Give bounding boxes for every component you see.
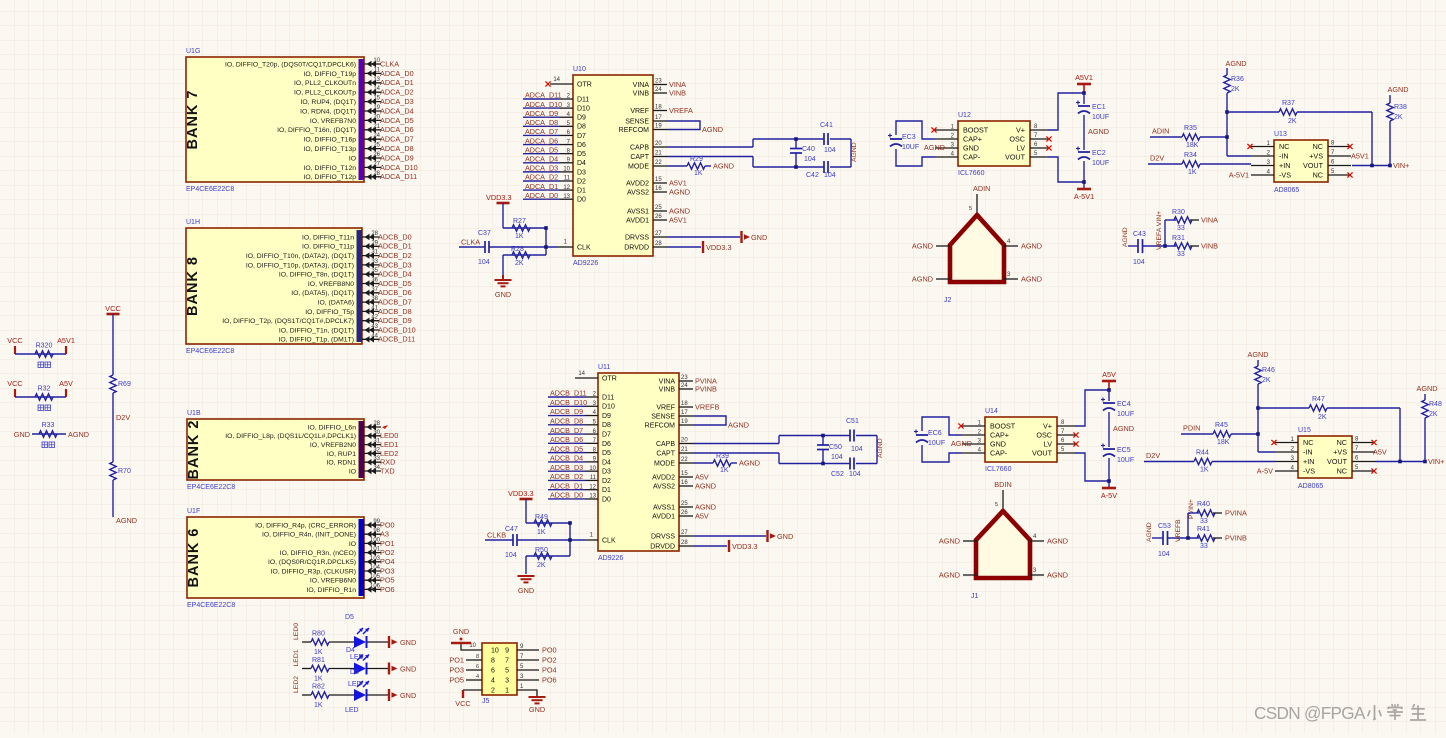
- svg-text:D2V: D2V: [1146, 451, 1160, 460]
- svg-text:R49: R49: [535, 514, 548, 521]
- svg-text:OTR: OTR: [602, 376, 617, 383]
- svg-text:33: 33: [1177, 251, 1185, 258]
- svg-text:IO, PLL2_CLKOUTp: IO, PLL2_CLKOUTp: [294, 90, 356, 97]
- svg-text:AGND: AGND: [1047, 571, 1068, 580]
- svg-text:PO0: PO0: [380, 520, 395, 529]
- svg-text:104: 104: [849, 471, 861, 478]
- svg-text:NC: NC: [1337, 467, 1347, 476]
- svg-text:3: 3: [505, 678, 509, 685]
- svg-text:10UF: 10UF: [1092, 160, 1109, 167]
- svg-text:V+: V+: [1043, 422, 1052, 431]
- svg-text:A5V1: A5V1: [669, 178, 687, 187]
- svg-text:104: 104: [824, 147, 836, 154]
- svg-text:IO, (DATA5), (DQ1T): IO, (DATA5), (DQ1T): [291, 290, 354, 297]
- svg-text:IO, RDN1: IO, RDN1: [327, 460, 357, 467]
- svg-text:ADIN: ADIN: [973, 184, 990, 193]
- svg-text:26: 26: [681, 510, 688, 516]
- svg-text:NC: NC: [1303, 438, 1313, 447]
- svg-text:22: 22: [655, 160, 662, 166]
- svg-text:AVSS1: AVSS1: [653, 504, 675, 511]
- svg-text:EP4CE6E22C8: EP4CE6E22C8: [187, 484, 235, 491]
- svg-text:ADCA_D4: ADCA_D4: [525, 154, 558, 163]
- svg-text:R45: R45: [1215, 422, 1228, 429]
- svg-text:LV: LV: [1017, 144, 1025, 153]
- svg-text:VREF: VREF: [630, 108, 649, 115]
- svg-text:R31: R31: [1172, 235, 1185, 242]
- svg-text:CAPB: CAPB: [630, 144, 649, 151]
- svg-text:D10: D10: [577, 106, 590, 113]
- svg-text:IO, DIFFIO_T10p, (DATA3), (DQ1: IO, DIFFIO_T10p, (DATA3), (DQ1T): [246, 262, 354, 269]
- svg-text:PO2: PO2: [380, 548, 395, 557]
- svg-text:NC: NC: [1313, 142, 1323, 151]
- svg-text:AGND: AGND: [695, 481, 716, 490]
- svg-text:PO5: PO5: [380, 576, 395, 585]
- svg-text:LED0: LED0: [380, 431, 398, 440]
- svg-text:19: 19: [681, 419, 688, 425]
- svg-text:AD8065: AD8065: [1298, 483, 1323, 490]
- svg-text:CAP+: CAP+: [990, 431, 1009, 440]
- svg-text:IO: IO: [349, 155, 356, 162]
- svg-text:ADCB_D11: ADCB_D11: [550, 389, 587, 398]
- svg-text:16: 16: [681, 480, 688, 486]
- svg-text:D11: D11: [602, 394, 614, 401]
- svg-text:ADCA_D1: ADCA_D1: [525, 182, 558, 191]
- svg-text:10UF: 10UF: [1092, 114, 1109, 121]
- svg-text:D11: D11: [577, 96, 589, 103]
- svg-text:R48: R48: [1429, 401, 1442, 408]
- svg-text:PO2: PO2: [542, 656, 557, 665]
- svg-text:ADCA_D11: ADCA_D11: [525, 91, 562, 100]
- svg-text:10UF: 10UF: [928, 440, 945, 447]
- svg-text:22: 22: [681, 457, 688, 463]
- svg-text:VINB: VINB: [633, 90, 650, 97]
- svg-text:11: 11: [590, 475, 597, 481]
- svg-text:IO, VREFB2N0: IO, VREFB2N0: [310, 442, 356, 449]
- svg-text:IO, DIFFIO_R3p, (CLKUSR): IO, DIFFIO_R3p, (CLKUSR): [271, 568, 356, 575]
- svg-text:ADCA_D0: ADCA_D0: [525, 191, 558, 200]
- svg-text:PVIN+: PVIN+: [1188, 499, 1195, 519]
- svg-text:ADCB_D8: ADCB_D8: [550, 417, 583, 426]
- svg-text:IO: IO: [349, 541, 356, 548]
- svg-text:PO4: PO4: [380, 557, 395, 566]
- svg-text:VREFA VIN+: VREFA VIN+: [1156, 211, 1163, 250]
- svg-text:VOUT: VOUT: [1327, 457, 1348, 466]
- svg-text:BANK 7: BANK 7: [185, 90, 201, 150]
- svg-text:PO5: PO5: [449, 676, 464, 685]
- svg-text:2K: 2K: [515, 260, 524, 267]
- svg-text:AVDD2: AVDD2: [652, 474, 675, 481]
- svg-text:6: 6: [491, 668, 495, 675]
- svg-text:AGND: AGND: [924, 143, 945, 152]
- svg-text:IO, DIFFIO_T10n, (DATA2), (DQ1: IO, DIFFIO_T10n, (DATA2), (DQ1T): [246, 253, 354, 260]
- svg-text:R44: R44: [1196, 450, 1209, 457]
- svg-text:EC6: EC6: [928, 430, 942, 437]
- svg-text:C43: C43: [1133, 231, 1146, 238]
- svg-text:104: 104: [851, 446, 863, 453]
- svg-text:V+: V+: [1016, 126, 1025, 135]
- svg-text:R80: R80: [312, 631, 325, 638]
- svg-text:D0: D0: [577, 197, 586, 204]
- svg-text:R37: R37: [1282, 100, 1295, 107]
- svg-text:J2: J2: [944, 297, 952, 304]
- svg-text:IO, DIFFIO_T2p, (DQS1T/CQ1T#,D: IO, DIFFIO_T2p, (DQS1T/CQ1T#,DPCLK7): [222, 318, 354, 325]
- svg-text:VINB: VINB: [659, 386, 676, 393]
- svg-text:A5V1: A5V1: [669, 215, 687, 224]
- svg-text:ADCB_D3: ADCB_D3: [378, 260, 412, 269]
- svg-text:AGND: AGND: [877, 438, 884, 458]
- svg-text:ADCB_D0: ADCB_D0: [550, 491, 583, 500]
- svg-text:MODE: MODE: [628, 163, 649, 170]
- svg-text:AGND: AGND: [1416, 384, 1437, 393]
- svg-text:DRVSS: DRVSS: [651, 533, 675, 540]
- svg-text:CLKA: CLKA: [380, 59, 399, 68]
- svg-text:VCC: VCC: [7, 379, 22, 388]
- svg-text:13: 13: [563, 194, 570, 200]
- svg-text:1K: 1K: [314, 676, 323, 683]
- svg-text:AVDD2: AVDD2: [626, 180, 649, 187]
- svg-text:BANK 2: BANK 2: [186, 420, 202, 480]
- svg-text:D5: D5: [602, 450, 611, 457]
- svg-text:2K: 2K: [1429, 411, 1438, 418]
- svg-text:+IN: +IN: [1279, 161, 1290, 170]
- svg-text:ADCA_D2: ADCA_D2: [525, 173, 558, 182]
- svg-text:24: 24: [681, 383, 688, 389]
- svg-text:104: 104: [1158, 551, 1170, 558]
- svg-text:EP4CE6E22C8: EP4CE6E22C8: [186, 348, 234, 355]
- svg-text:ADCA_D10: ADCA_D10: [525, 100, 562, 109]
- svg-text:1K: 1K: [1188, 169, 1197, 176]
- svg-text:IO, DIFFIO_R1n: IO, DIFFIO_R1n: [307, 587, 357, 594]
- svg-text:VDD3.3: VDD3.3: [706, 243, 732, 252]
- svg-text:U1B: U1B: [187, 410, 201, 417]
- svg-text:A5V1: A5V1: [1351, 151, 1369, 160]
- svg-text:R38: R38: [1394, 104, 1407, 111]
- svg-text:R41: R41: [1197, 526, 1210, 533]
- svg-text:4: 4: [476, 674, 479, 680]
- svg-text:1K: 1K: [314, 649, 323, 656]
- svg-text:RXD: RXD: [380, 458, 395, 467]
- svg-text:+IN: +IN: [1303, 457, 1314, 466]
- svg-text:A5V: A5V: [695, 472, 709, 481]
- svg-text:A3: A3: [380, 530, 389, 539]
- svg-text:R70: R70: [118, 468, 131, 475]
- svg-text:ADCA_D1: ADCA_D1: [380, 78, 414, 87]
- svg-text:104: 104: [505, 552, 517, 559]
- svg-text:EP4CE6E22C8: EP4CE6E22C8: [186, 186, 234, 193]
- svg-text:LED: LED: [350, 654, 364, 661]
- svg-text:VIN+: VIN+: [1428, 457, 1444, 466]
- svg-text:-IN: -IN: [1303, 448, 1313, 457]
- svg-text:AGND: AGND: [1122, 227, 1129, 247]
- svg-text:IO, RUP4, (DQ1T): IO, RUP4, (DQ1T): [300, 99, 356, 106]
- svg-text:ADCB_D3: ADCB_D3: [550, 463, 583, 472]
- svg-text:D7: D7: [577, 133, 586, 140]
- svg-text:IO, DIFFIO_T16p: IO, DIFFIO_T16p: [304, 137, 357, 144]
- svg-text:ADCB_D0: ADCB_D0: [378, 232, 412, 241]
- svg-text:ADCB_D9: ADCB_D9: [550, 407, 583, 416]
- svg-text:C42: C42: [806, 172, 819, 179]
- svg-text:R81: R81: [312, 657, 325, 664]
- svg-text:C52: C52: [831, 471, 844, 478]
- svg-text:ADCA_D9: ADCA_D9: [525, 109, 558, 118]
- svg-text:VINA: VINA: [1201, 216, 1218, 225]
- svg-text:GND: GND: [529, 705, 545, 714]
- svg-text:LED: LED: [345, 707, 359, 714]
- svg-text:A5V1: A5V1: [57, 336, 75, 345]
- svg-text:NC: NC: [1313, 171, 1323, 180]
- svg-text:33: 33: [1177, 225, 1185, 232]
- svg-text:28: 28: [655, 241, 662, 247]
- svg-text:D9: D9: [577, 115, 586, 122]
- svg-text:R320: R320: [36, 343, 53, 350]
- svg-text:104: 104: [1133, 259, 1145, 266]
- svg-text:CLKA: CLKA: [461, 238, 480, 247]
- svg-text:VCC: VCC: [105, 304, 121, 313]
- svg-text:20: 20: [655, 141, 662, 147]
- svg-text:25: 25: [681, 501, 688, 507]
- svg-text:IO, RDN4, (DQ1T): IO, RDN4, (DQ1T): [300, 108, 356, 115]
- svg-text:ICL7660: ICL7660: [985, 466, 1012, 473]
- svg-text:PVINA: PVINA: [1225, 509, 1247, 518]
- svg-text:AVSS2: AVSS2: [627, 189, 649, 196]
- svg-text:D0: D0: [602, 496, 611, 503]
- svg-text:VDD3.3: VDD3.3: [732, 542, 758, 551]
- svg-text:VIN+: VIN+: [1393, 161, 1409, 170]
- svg-text:U12: U12: [958, 112, 971, 119]
- svg-text:VOUT: VOUT: [1032, 449, 1053, 458]
- svg-text:IO, DIFFIO_T5p: IO, DIFFIO_T5p: [305, 309, 354, 316]
- svg-text:1K: 1K: [720, 467, 729, 474]
- svg-text:AGND: AGND: [912, 275, 933, 284]
- svg-text:AGND: AGND: [728, 421, 749, 430]
- svg-text:2K: 2K: [1262, 377, 1271, 384]
- svg-text:D3: D3: [602, 469, 611, 476]
- svg-text:19: 19: [655, 124, 662, 130]
- svg-text:AGND: AGND: [669, 187, 690, 196]
- svg-text:ADCB_D10: ADCB_D10: [550, 398, 587, 407]
- svg-text:AVSS1: AVSS1: [627, 208, 649, 215]
- svg-text:-VS: -VS: [1279, 171, 1291, 180]
- svg-text:A5V1: A5V1: [1075, 73, 1093, 82]
- svg-text:IO, DIFFIO_T16n, (DQ1T): IO, DIFFIO_T16n, (DQ1T): [277, 127, 356, 134]
- svg-text:AGND: AGND: [1047, 537, 1068, 546]
- svg-text:1K: 1K: [1200, 467, 1209, 474]
- svg-text:IO: IO: [349, 468, 356, 475]
- svg-text:ADCB_D6: ADCB_D6: [378, 288, 412, 297]
- svg-text:IO, DIFFIO_L8p, (DQS1L/CQ1L#,D: IO, DIFFIO_L8p, (DQS1L/CQ1L#,DPCLK1): [225, 433, 356, 440]
- svg-text:18: 18: [681, 401, 688, 407]
- svg-text:U13: U13: [1274, 131, 1287, 138]
- svg-text:D8: D8: [602, 422, 611, 429]
- svg-text:1K: 1K: [314, 702, 323, 709]
- svg-text:EC3: EC3: [902, 134, 916, 141]
- svg-text:VINA: VINA: [659, 378, 676, 385]
- svg-text:C37: C37: [478, 230, 491, 237]
- svg-text:IO, DIFFIO_L6n: IO, DIFFIO_L6n: [308, 424, 357, 431]
- svg-text:R47: R47: [1312, 396, 1325, 403]
- svg-text:CAPB: CAPB: [656, 441, 675, 448]
- svg-text:AGND: AGND: [1021, 275, 1042, 284]
- svg-text:9: 9: [505, 648, 509, 655]
- svg-text:10UF: 10UF: [902, 144, 919, 151]
- svg-text:C47: C47: [505, 526, 518, 533]
- svg-text:ICL7660: ICL7660: [958, 170, 985, 177]
- svg-text:AGND: AGND: [1113, 424, 1134, 433]
- svg-text:CAP-: CAP-: [963, 153, 981, 162]
- svg-text:33: 33: [1200, 543, 1208, 550]
- svg-text:U10: U10: [573, 66, 586, 73]
- svg-text:ADCA_D0: ADCA_D0: [380, 69, 414, 78]
- svg-text:SENSE: SENSE: [651, 413, 675, 420]
- svg-text:AGND: AGND: [739, 459, 760, 468]
- svg-text:R46: R46: [1262, 367, 1275, 374]
- svg-text:PO4: PO4: [542, 666, 557, 675]
- svg-text:R40: R40: [1197, 501, 1210, 508]
- svg-text:2K: 2K: [1288, 118, 1297, 125]
- svg-text:GND: GND: [990, 440, 1006, 449]
- svg-text:AGND: AGND: [1225, 59, 1246, 68]
- svg-text:EC4: EC4: [1117, 401, 1131, 408]
- svg-text:GND: GND: [14, 430, 30, 439]
- svg-text:EC1: EC1: [1092, 104, 1106, 111]
- svg-text:AGND: AGND: [939, 537, 960, 546]
- svg-text:J1: J1: [971, 593, 979, 600]
- svg-text:ADCB_D4: ADCB_D4: [378, 270, 412, 279]
- svg-text:AGND: AGND: [116, 516, 137, 525]
- svg-text:13: 13: [589, 494, 596, 500]
- svg-text:D5: D5: [345, 614, 354, 621]
- svg-text:ADCB_D1: ADCB_D1: [378, 242, 412, 251]
- svg-text:ADCB_D1: ADCB_D1: [550, 481, 583, 490]
- svg-text:D6: D6: [602, 441, 611, 448]
- svg-text:AVSS2: AVSS2: [653, 483, 675, 490]
- svg-text:PO6: PO6: [542, 676, 557, 685]
- svg-text:8: 8: [491, 658, 495, 665]
- svg-text:ADCB_D9: ADCB_D9: [378, 316, 412, 325]
- svg-text:AGND: AGND: [1146, 522, 1153, 542]
- svg-text:AGND: AGND: [1247, 350, 1268, 359]
- svg-text:104: 104: [478, 259, 490, 266]
- svg-text:104: 104: [804, 156, 816, 163]
- svg-text:PO1: PO1: [380, 539, 395, 548]
- svg-text:U14: U14: [985, 408, 998, 415]
- svg-text:SENSE: SENSE: [625, 118, 649, 125]
- svg-text:GND: GND: [400, 665, 416, 674]
- svg-text:14: 14: [578, 371, 585, 377]
- svg-text:AGND: AGND: [1088, 127, 1109, 136]
- svg-text:EC5: EC5: [1117, 447, 1131, 454]
- svg-text:10UF: 10UF: [1117, 411, 1134, 418]
- svg-text:+VS: +VS: [1309, 152, 1323, 161]
- svg-text:AD9226: AD9226: [573, 260, 598, 267]
- svg-text:PO6: PO6: [380, 585, 395, 594]
- svg-text:28: 28: [373, 421, 380, 427]
- svg-text:AGND: AGND: [68, 430, 89, 439]
- svg-text:J5: J5: [482, 698, 490, 705]
- svg-text:VCC: VCC: [7, 336, 22, 345]
- svg-text:AGND: AGND: [851, 142, 858, 162]
- svg-text:ADCB_D5: ADCB_D5: [550, 444, 583, 453]
- svg-text:OSC: OSC: [1036, 431, 1052, 440]
- svg-text:IO, DIFFIO_T13p: IO, DIFFIO_T13p: [304, 146, 357, 153]
- svg-text:EC2: EC2: [1092, 150, 1106, 157]
- svg-text:AGND: AGND: [951, 439, 972, 448]
- svg-text:26: 26: [655, 214, 662, 220]
- svg-text:LED1: LED1: [380, 440, 398, 449]
- svg-text:D1: D1: [577, 188, 586, 195]
- svg-text:D10: D10: [602, 404, 615, 411]
- svg-text:U11: U11: [598, 364, 610, 371]
- svg-text:IO, DIFFIO_T19p: IO, DIFFIO_T19p: [304, 71, 357, 78]
- svg-text:-IN: -IN: [1279, 152, 1289, 161]
- svg-text:14: 14: [553, 77, 560, 83]
- svg-text:EP4CE6E22C8: EP4CE6E22C8: [187, 602, 235, 609]
- svg-text:+VS: +VS: [1333, 448, 1347, 457]
- svg-text:CLK: CLK: [602, 538, 616, 545]
- svg-text:PO3: PO3: [449, 666, 464, 675]
- svg-text:D2: D2: [577, 178, 586, 185]
- svg-text:10: 10: [563, 167, 570, 173]
- svg-text:TXD: TXD: [380, 466, 395, 475]
- svg-text:BOOST: BOOST: [990, 422, 1016, 431]
- svg-text:GND: GND: [963, 144, 979, 153]
- svg-text:NC: NC: [1279, 142, 1289, 151]
- svg-text:AD8065: AD8065: [1274, 187, 1299, 194]
- svg-text:ADCB_D2: ADCB_D2: [378, 251, 412, 260]
- svg-text:CAP-: CAP-: [990, 449, 1008, 458]
- svg-text:D5: D5: [577, 151, 586, 158]
- svg-text:AGND: AGND: [939, 571, 960, 580]
- svg-text:ADCA_D9: ADCA_D9: [380, 153, 414, 162]
- svg-text:ADCB_D2: ADCB_D2: [550, 472, 583, 481]
- svg-text:10: 10: [491, 648, 499, 655]
- svg-text:U15: U15: [1298, 427, 1311, 434]
- svg-text:ADCA_D2: ADCA_D2: [380, 88, 414, 97]
- svg-text:D1: D1: [602, 487, 611, 494]
- svg-text:2K: 2K: [1231, 86, 1240, 93]
- svg-text:LV: LV: [1044, 440, 1052, 449]
- svg-text:PO0: PO0: [542, 646, 557, 655]
- svg-text:VDD3.3: VDD3.3: [486, 193, 512, 202]
- svg-text:VOUT: VOUT: [1005, 153, 1026, 162]
- svg-text:VREFB: VREFB: [1175, 519, 1182, 542]
- svg-text:C50: C50: [829, 444, 842, 451]
- svg-text:IO, DIFFIO_T12p: IO, DIFFIO_T12p: [304, 174, 357, 181]
- svg-text:REFCOM: REFCOM: [619, 127, 650, 134]
- svg-text:DRVDD: DRVDD: [624, 244, 649, 251]
- svg-text:R33: R33: [42, 422, 55, 429]
- svg-text:IO, DIFFIO_R3n, (nCEO): IO, DIFFIO_R3n, (nCEO): [280, 550, 356, 557]
- svg-text:AGND: AGND: [669, 206, 690, 215]
- svg-text:20: 20: [681, 438, 688, 444]
- svg-text:12: 12: [589, 484, 596, 490]
- svg-text:15: 15: [681, 471, 688, 477]
- svg-text:IO, DIFFIO_T20p, (DQS0T/CQ1T,D: IO, DIFFIO_T20p, (DQS0T/CQ1T,DPCLK6): [225, 61, 356, 68]
- svg-text:IO, VREFB8N0: IO, VREFB8N0: [308, 281, 354, 288]
- svg-text:1K: 1K: [694, 170, 703, 177]
- svg-text:17: 17: [681, 410, 688, 416]
- svg-text:ADCB_D7: ADCB_D7: [550, 426, 583, 435]
- svg-text:18K: 18K: [1186, 142, 1199, 149]
- svg-text:GND: GND: [777, 532, 793, 541]
- svg-text:10: 10: [589, 466, 596, 472]
- svg-text:A5V: A5V: [1373, 447, 1387, 456]
- svg-text:VREFB: VREFB: [695, 402, 719, 411]
- svg-text:LED2: LED2: [380, 449, 398, 458]
- svg-text:IO, DIFFIO_T1p, (DM1T): IO, DIFFIO_T1p, (DM1T): [278, 337, 354, 344]
- svg-text:IO, DIFFIO_T11n: IO, DIFFIO_T11n: [302, 234, 354, 241]
- svg-text:D4: D4: [602, 459, 611, 466]
